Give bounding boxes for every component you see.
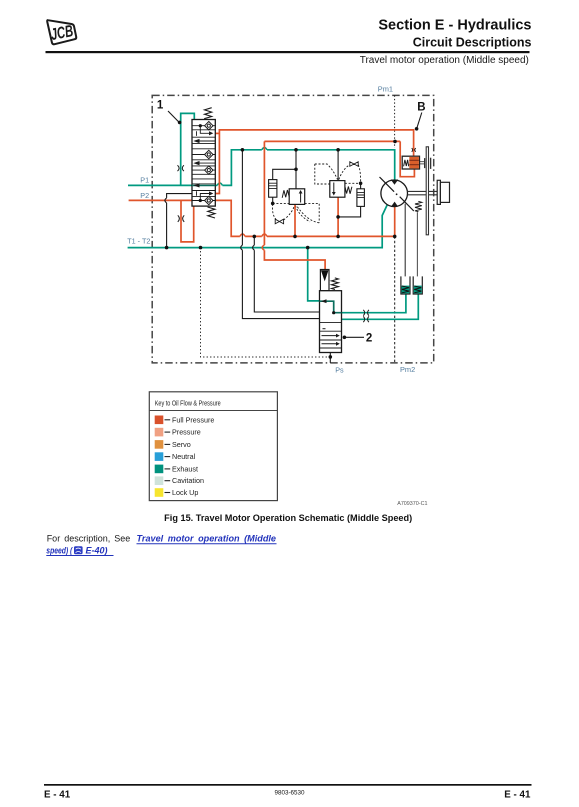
svg-text:Pressure: Pressure xyxy=(172,428,201,437)
svg-text:E-40): E-40) xyxy=(86,545,108,555)
svg-text:P2: P2 xyxy=(140,191,149,200)
svg-text:Ps: Ps xyxy=(335,365,344,374)
svg-text:Circuit Descriptions: Circuit Descriptions xyxy=(413,36,532,50)
svg-text:Pm1: Pm1 xyxy=(378,85,393,94)
svg-text:9803-6530: 9803-6530 xyxy=(274,789,305,796)
svg-text:A709370-C1: A709370-C1 xyxy=(397,501,427,507)
svg-text:Exhaust: Exhaust xyxy=(172,464,198,473)
svg-text:T1 - T2: T1 - T2 xyxy=(127,236,150,245)
svg-text:Neutral: Neutral xyxy=(172,452,196,461)
svg-text:Travel motor operation (Middle: Travel motor operation (Middle xyxy=(137,533,277,543)
svg-text:Fig 15. Travel Motor Operation: Fig 15. Travel Motor Operation Schematic… xyxy=(164,513,412,523)
svg-text:Pm2: Pm2 xyxy=(400,365,415,374)
svg-text:Section E - Hydraulics: Section E - Hydraulics xyxy=(378,18,531,34)
svg-text:Lock Up: Lock Up xyxy=(172,488,198,497)
svg-text:Key to Oil Flow & Pressure: Key to Oil Flow & Pressure xyxy=(155,399,221,408)
svg-text:B: B xyxy=(417,102,425,114)
svg-text:1: 1 xyxy=(157,100,164,112)
svg-text:2: 2 xyxy=(366,332,372,344)
svg-text:For description, See: For description, See xyxy=(47,533,131,543)
svg-text:speed) (: speed) ( xyxy=(46,545,73,555)
svg-text:Travel motor operation (Middle: Travel motor operation (Middle speed) xyxy=(360,55,529,66)
svg-text:E - 41: E - 41 xyxy=(504,790,531,801)
svg-text:E - 41: E - 41 xyxy=(44,790,71,801)
svg-text:P1: P1 xyxy=(140,175,149,184)
svg-text:Servo: Servo xyxy=(172,440,191,449)
svg-text:Full Pressure: Full Pressure xyxy=(172,415,214,424)
svg-text:Cavitation: Cavitation xyxy=(172,476,204,485)
